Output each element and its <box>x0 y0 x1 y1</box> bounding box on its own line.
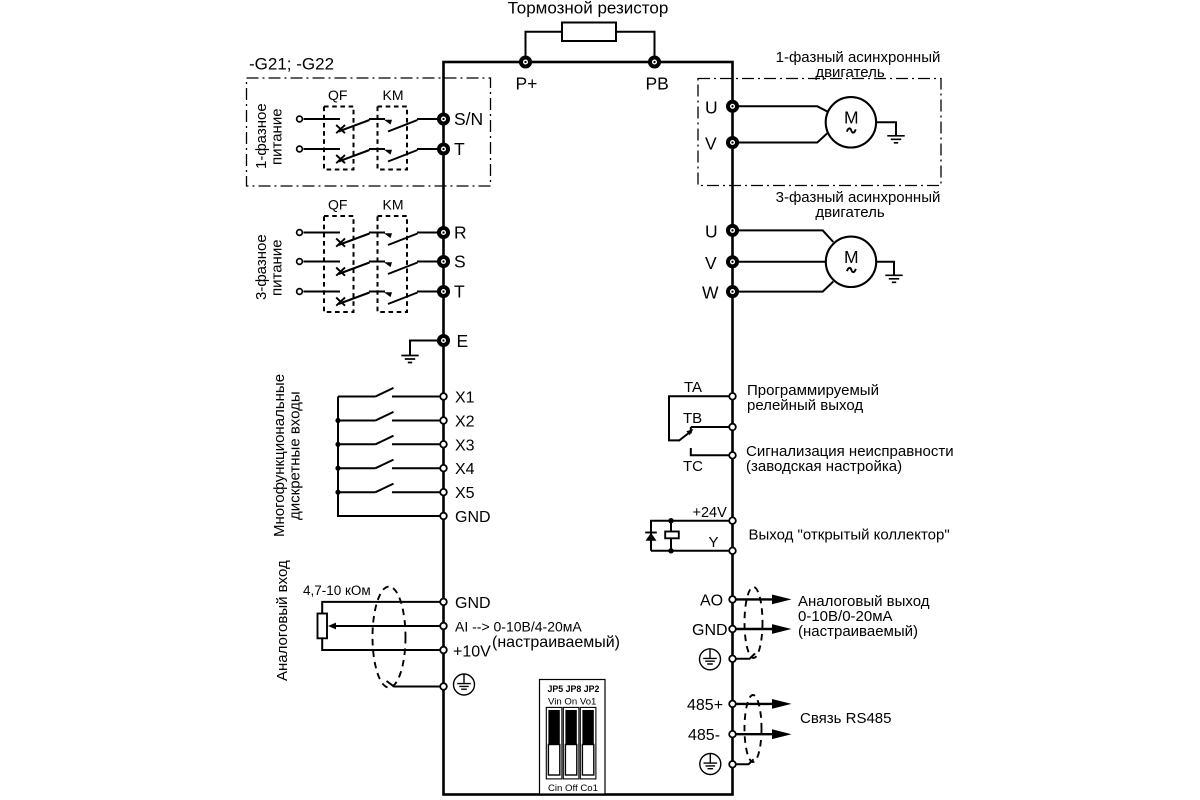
wire: bus to switch X4 <box>338 467 376 469</box>
breaker enclosure 3ph-QF (dashed box) <box>324 216 354 312</box>
svg-text:M: M <box>844 247 859 267</box>
svg-text:W: W <box>702 283 719 303</box>
svg-text:TA: TA <box>684 379 702 396</box>
wire: resistor left lead to P+ <box>526 32 563 58</box>
shield: analog input cable screen (dashed ellipse) <box>373 587 406 688</box>
svg-text:TC: TC <box>683 458 703 475</box>
svg-text:Связь RS485: Связь RS485 <box>800 710 891 727</box>
wire: pot bottom to +10V terminal <box>322 638 440 650</box>
contactor blade KM pole R <box>388 234 418 246</box>
wire: digital input common bus <box>338 397 441 517</box>
wire: switch X1 to terminal <box>392 396 441 398</box>
svg-text:485-: 485- <box>688 727 720 744</box>
svg-text:X5: X5 <box>455 485 475 502</box>
breaker contact QF pole R (X mark) <box>336 239 345 247</box>
terminal U (3ph) <box>705 221 737 241</box>
svg-text:AO: AO <box>700 592 723 609</box>
svg-text:GND: GND <box>692 622 728 639</box>
svg-text:3-фазноепитание: 3-фазноепитание <box>253 234 286 300</box>
breaker contact QF pole S (X mark) <box>336 268 345 276</box>
wire: switch X4 to terminal <box>392 467 441 469</box>
node: supply input T(1ph) (open circle) <box>297 146 303 152</box>
svg-text:Многофункциональныедискретные: Многофункциональныедискретные входы <box>271 374 304 537</box>
contactor enclosure 1ph-KM (dashed box) <box>378 107 408 170</box>
wire: bus to switch X2 <box>338 420 376 422</box>
arrow: GND (analog out) <box>737 624 792 634</box>
label: Многофункциональные дискретные входы (rotated) <box>271 374 304 537</box>
terminal V (1ph) <box>705 134 737 154</box>
resistor: brake resistor body <box>562 23 616 42</box>
svg-text:PB: PB <box>646 74 669 94</box>
terminal GND (analog out) <box>692 622 736 639</box>
motor M2: 3-phase asynchronous motor <box>826 237 876 287</box>
svg-text:X2: X2 <box>455 414 475 431</box>
terminal Y <box>709 534 736 554</box>
wire: QF to KM pole S/N <box>369 118 385 120</box>
terminal GND (digital common) <box>440 509 490 526</box>
svg-text:M: M <box>844 108 859 128</box>
svg-text:+10V: +10V <box>453 644 491 661</box>
wire: input S to breaker <box>304 261 341 263</box>
svg-text:Выход "открытый коллектор": Выход "открытый коллектор" <box>749 527 950 544</box>
device outline: frequency converter enclosure <box>444 62 733 795</box>
wire: V(3ph) to motor <box>737 261 825 263</box>
wire: screen hook (RS485) <box>736 759 754 764</box>
wire: shield to screen terminal <box>387 681 441 687</box>
svg-text:X1: X1 <box>455 390 475 407</box>
svg-text:двигатель: двигатель <box>815 204 885 221</box>
svg-text:P+: P+ <box>516 74 538 94</box>
junction: bus node X2 <box>335 418 340 423</box>
svg-text:(заводская настройка): (заводская настройка) <box>746 458 902 475</box>
svg-text:(настраиваемый): (настраиваемый) <box>798 623 918 640</box>
terminal S <box>439 252 466 272</box>
switch contact X2 (blade) <box>376 412 394 421</box>
terminal E <box>439 331 468 351</box>
svg-text:TB: TB <box>683 410 702 427</box>
breaker blade QF pole S <box>339 263 370 275</box>
terminal: RS485 screen clamp <box>729 761 736 768</box>
arrow: 485- <box>737 729 792 739</box>
terminal AO <box>700 592 736 609</box>
svg-text:E: E <box>457 331 469 351</box>
junction: bus node X3 <box>335 442 340 447</box>
svg-text:T: T <box>454 139 465 159</box>
terminal X5 <box>440 485 474 502</box>
svg-text:U: U <box>705 97 718 117</box>
svg-text:4,7-10 кОм: 4,7-10 кОм <box>303 583 371 598</box>
ground: PE at terminal E <box>401 356 418 363</box>
jumper slider JP2 <box>580 707 596 779</box>
ground: motor M2 earth <box>885 275 902 282</box>
wire: switch X2 to terminal <box>392 420 441 422</box>
contactor blade KM pole S/N <box>388 120 418 132</box>
contactor fixed contact KM pole S (triangle) <box>384 262 392 267</box>
svg-text:GND: GND <box>455 595 491 612</box>
wire: E terminal to protective earth <box>410 341 439 356</box>
switch contact X4 (blade) <box>376 460 394 469</box>
terminal X1 <box>440 390 474 407</box>
svg-text:релейный выход: релейный выход <box>747 397 863 414</box>
terminal +24V <box>693 505 736 524</box>
switch contact X3 (blade) <box>376 436 394 445</box>
breaker blade QF pole S/N <box>339 120 370 132</box>
svg-text:S/N: S/N <box>454 109 483 129</box>
junction: bus node X5 <box>335 490 340 495</box>
terminal W (3ph) <box>702 283 737 303</box>
terminal PB <box>646 57 669 93</box>
contactor fixed contact KM pole S/N (triangle) <box>384 120 392 125</box>
contactor blade KM pole S <box>388 263 418 275</box>
load branch wire <box>670 521 672 551</box>
contactor fixed contact KM pole T(3ph) (triangle) <box>384 292 392 297</box>
breaker contact QF pole S/N (X mark) <box>336 125 345 133</box>
wire: pot top to GND terminal <box>322 602 440 614</box>
terminal 485+ <box>687 697 736 714</box>
terminal 485- <box>688 727 736 744</box>
terminal X4 <box>440 461 474 478</box>
svg-text:Y: Y <box>709 534 719 551</box>
terminal TC <box>683 452 736 475</box>
wire: QF to KM pole R <box>369 232 385 234</box>
wire: input T(1ph) to breaker <box>304 148 341 150</box>
jumper slider JP5 <box>546 707 562 779</box>
terminal TB <box>683 410 736 430</box>
svg-text:R: R <box>454 223 467 243</box>
ground: protective earth (RS485 screen) <box>700 754 721 775</box>
node: supply input S/N (open circle) <box>297 116 303 122</box>
contactor enclosure 3ph-KM (dashed box) <box>378 216 408 312</box>
switch contact X1 (blade) <box>376 388 394 397</box>
wire: KM to terminal S/N <box>417 118 439 120</box>
arrow: 485+ <box>737 699 792 709</box>
terminal T(1ph) <box>439 139 465 159</box>
potentiometer 4,7-10 кОм (body) <box>318 614 328 639</box>
wire: bus to switch X3 <box>338 443 376 445</box>
label: Аналоговый вход (rotated) <box>274 560 291 681</box>
arrow: AO output <box>737 595 792 605</box>
svg-text:485+: 485+ <box>687 697 723 714</box>
diode VD (freewheel, pointing up) <box>646 533 657 541</box>
terminal AI <box>440 619 620 652</box>
wire: input T(3ph) to breaker <box>304 291 341 293</box>
wire: screen hook (analog out) <box>736 654 755 659</box>
terminal X2 <box>440 414 474 431</box>
wire: U(1ph) to motor <box>737 106 828 111</box>
switch contact X5 (blade) <box>376 484 394 493</box>
breaker contact QF pole T(3ph) (X mark) <box>336 298 345 306</box>
wire: TA common to relay pivot <box>669 396 729 440</box>
wire: W(3ph) to motor <box>737 282 833 292</box>
svg-text:KM: KM <box>383 87 404 103</box>
wire: motor M1 to ground <box>877 122 896 136</box>
svg-text:Vin On Vo1: Vin On Vo1 <box>548 697 596 708</box>
breaker blade QF pole T(1ph) <box>339 150 370 162</box>
wire: bus to switch X1 <box>338 396 376 398</box>
motor M1: 1-phase asynchronous motor <box>826 97 876 147</box>
terminal S/N <box>439 109 483 129</box>
node: supply input R (open circle) <box>297 230 303 236</box>
wire: QF to KM pole S <box>369 261 385 263</box>
svg-text:Аналоговый вход: Аналоговый вход <box>274 560 291 681</box>
svg-text:V: V <box>705 253 717 273</box>
terminal R <box>439 223 467 243</box>
junction: +24V / load branch <box>668 518 673 523</box>
wire: input R to breaker <box>304 232 341 234</box>
svg-text:GND: GND <box>455 509 491 526</box>
wire: KM to terminal T(3ph) <box>417 291 439 293</box>
svg-text:AI --> 0-10В/4-20мА: AI --> 0-10В/4-20мА <box>455 619 582 635</box>
svg-text:1-фазноепитание: 1-фазноепитание <box>253 103 286 169</box>
wire: resistor right lead to PB <box>616 32 655 58</box>
wire: KM to terminal R <box>417 232 439 234</box>
terminal +10V <box>440 644 491 661</box>
terminal U (1ph) <box>705 97 737 117</box>
wire: Y rail <box>651 550 729 552</box>
node: supply input S (open circle) <box>297 259 303 265</box>
terminal X3 <box>440 437 474 454</box>
label: 3-фазное питание (rotated) <box>253 234 286 300</box>
wire: motor M2 to ground <box>877 262 894 276</box>
ground: protective earth (analog out screen) <box>700 649 721 670</box>
ground: motor M1 earth <box>887 136 904 143</box>
ground: protective earth symbol (analog input screen) <box>454 674 475 695</box>
node: supply input T(3ph) (open circle) <box>297 289 303 295</box>
svg-text:QF: QF <box>328 197 347 213</box>
wire: switch X5 to terminal <box>392 491 441 493</box>
terminal P+ <box>516 57 538 93</box>
contactor blade KM pole T(1ph) <box>388 150 418 162</box>
terminal V (3ph) <box>705 253 737 273</box>
wire: KM to terminal S <box>417 261 439 263</box>
wire: KM to terminal T(1ph) <box>417 148 439 150</box>
svg-text:T: T <box>454 282 465 302</box>
label: 1-фазное питание (rotated) <box>253 103 286 169</box>
wire: bus to switch X5 <box>338 491 376 493</box>
svg-text:+24V: +24V <box>693 505 728 521</box>
wire: QF to KM pole T(3ph) <box>369 291 385 293</box>
terminal: analog out screen clamp <box>729 656 736 663</box>
shield: RS485 cable screen (dashed ellipse) <box>745 695 762 762</box>
jumper block JP5/JP8/JP2 (outline) <box>540 680 606 795</box>
shield: analog output cable screen (dashed ellipse) <box>745 587 763 658</box>
svg-text:QF: QF <box>328 87 347 103</box>
wire: input S/N to breaker <box>304 118 341 120</box>
terminal T(3ph) <box>439 282 465 302</box>
relay fixed contact TB <box>691 427 729 434</box>
relay blade arrowhead <box>686 429 693 435</box>
svg-text:JP5 JP8 JP2: JP5 JP8 JP2 <box>548 684 600 694</box>
enclosure: single-phase supply option box <box>247 78 491 186</box>
wire: +24V rail <box>651 521 729 551</box>
terminal: analog screen clamp <box>440 683 447 690</box>
terminal TA <box>684 379 736 400</box>
svg-text:(настраиваемый): (настраиваемый) <box>492 634 620 651</box>
pot wiper arrow <box>328 623 336 630</box>
svg-text:Cin Off Co1: Cin Off Co1 <box>548 783 598 794</box>
contactor fixed contact KM pole R (triangle) <box>384 233 392 238</box>
terminal GND (analog) <box>440 595 490 612</box>
relay fixed contact TC <box>691 448 729 455</box>
breaker blade QF pole R <box>339 234 370 246</box>
svg-text:X3: X3 <box>455 437 475 454</box>
contactor fixed contact KM pole T(1ph) (triangle) <box>384 150 392 155</box>
enclosure: 1-phase motor option box <box>698 79 941 186</box>
svg-text:KM: KM <box>383 197 404 213</box>
svg-text:S: S <box>454 252 466 272</box>
svg-text:U: U <box>705 221 718 241</box>
svg-text:X4: X4 <box>455 461 475 478</box>
svg-text:Тормозной резистор: Тормозной резистор <box>508 0 669 18</box>
wire: switch X3 to terminal <box>392 443 441 445</box>
breaker contact QF pole T(1ph) (X mark) <box>336 155 345 163</box>
junction: Y / load branch <box>668 548 673 553</box>
wire: V(1ph) to motor <box>737 133 828 143</box>
breaker blade QF pole T(3ph) <box>339 293 370 305</box>
wire: QF to KM pole T(1ph) <box>369 148 385 150</box>
wire: pot wiper to AI terminal <box>335 625 440 627</box>
load box (relay coil) <box>665 532 679 539</box>
svg-text:V: V <box>705 134 717 154</box>
wire: U(3ph) to motor <box>737 230 833 242</box>
svg-text:-G21; -G22: -G21; -G22 <box>249 55 334 74</box>
breaker enclosure 1ph-QF (dashed box) <box>324 107 354 170</box>
contactor blade KM pole T(3ph) <box>388 293 418 305</box>
jumper slider JP8 <box>563 707 579 779</box>
relay blade (changeover contact) <box>679 433 690 441</box>
junction: bus node X4 <box>335 466 340 471</box>
